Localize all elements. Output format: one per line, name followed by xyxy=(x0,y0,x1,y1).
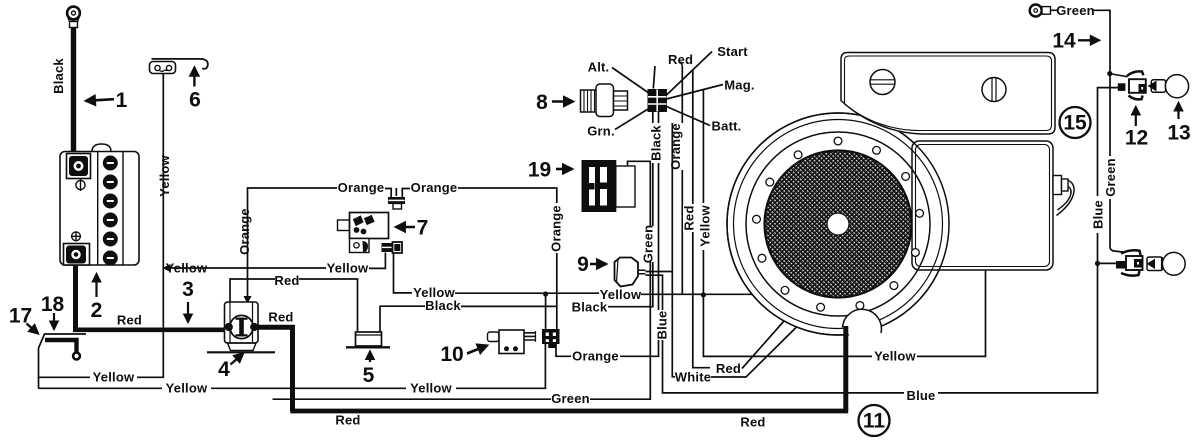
svg-text:Orange: Orange xyxy=(572,349,619,364)
svg-text:3: 3 xyxy=(182,278,194,301)
svg-text:12: 12 xyxy=(1125,127,1148,150)
svg-text:Green: Green xyxy=(551,391,590,406)
svg-text:Black: Black xyxy=(425,298,461,313)
svg-text:Start: Start xyxy=(717,44,748,59)
svg-text:Grn.: Grn. xyxy=(587,124,615,139)
svg-text:Batt.: Batt. xyxy=(712,119,742,134)
svg-text:2: 2 xyxy=(91,299,103,322)
svg-text:Red: Red xyxy=(716,361,741,376)
svg-text:Red: Red xyxy=(268,310,293,325)
svg-text:Red: Red xyxy=(668,52,693,67)
svg-text:6: 6 xyxy=(189,89,201,112)
svg-text:Yellow: Yellow xyxy=(698,204,713,246)
svg-text:Black: Black xyxy=(649,125,664,161)
svg-text:Red: Red xyxy=(740,415,765,430)
svg-text:10: 10 xyxy=(440,343,463,366)
svg-text:Yellow: Yellow xyxy=(166,381,208,396)
svg-text:Orange: Orange xyxy=(338,180,385,195)
svg-text:18: 18 xyxy=(41,293,65,316)
svg-text:19: 19 xyxy=(528,159,551,182)
svg-text:15: 15 xyxy=(1063,112,1087,135)
svg-text:Mag.: Mag. xyxy=(724,78,754,93)
svg-text:Yellow: Yellow xyxy=(410,381,452,396)
svg-text:Yellow: Yellow xyxy=(166,261,208,276)
svg-text:Blue: Blue xyxy=(1091,200,1106,229)
svg-text:Blue: Blue xyxy=(907,388,936,403)
svg-text:Black: Black xyxy=(51,58,66,94)
svg-text:Green: Green xyxy=(1103,158,1118,197)
svg-text:Red: Red xyxy=(117,313,142,328)
svg-text:Yellow: Yellow xyxy=(157,154,172,196)
svg-text:17: 17 xyxy=(9,305,32,328)
svg-text:Green: Green xyxy=(641,225,656,264)
svg-text:1: 1 xyxy=(116,89,128,112)
svg-text:White: White xyxy=(675,370,711,385)
svg-text:8: 8 xyxy=(536,91,548,114)
svg-text:Green: Green xyxy=(1056,3,1095,18)
svg-text:Blue: Blue xyxy=(655,311,670,340)
svg-text:Orange: Orange xyxy=(237,208,252,255)
svg-text:Orange: Orange xyxy=(668,123,683,170)
svg-text:11: 11 xyxy=(863,410,886,433)
svg-text:Alt.: Alt. xyxy=(588,60,610,75)
svg-text:Orange: Orange xyxy=(549,205,564,252)
svg-text:Yellow: Yellow xyxy=(327,261,369,276)
svg-text:14: 14 xyxy=(1052,30,1076,53)
svg-text:Orange: Orange xyxy=(411,180,458,195)
svg-text:Red: Red xyxy=(274,273,299,288)
svg-text:9: 9 xyxy=(577,253,589,276)
svg-text:5: 5 xyxy=(363,364,375,387)
svg-text:13: 13 xyxy=(1167,122,1190,145)
svg-text:Yellow: Yellow xyxy=(874,349,916,364)
svg-text:Yellow: Yellow xyxy=(93,370,135,385)
svg-text:Red: Red xyxy=(335,413,360,428)
svg-text:Black: Black xyxy=(572,300,608,315)
svg-text:Red: Red xyxy=(682,205,697,230)
svg-text:7: 7 xyxy=(417,217,429,240)
svg-text:4: 4 xyxy=(218,358,230,381)
